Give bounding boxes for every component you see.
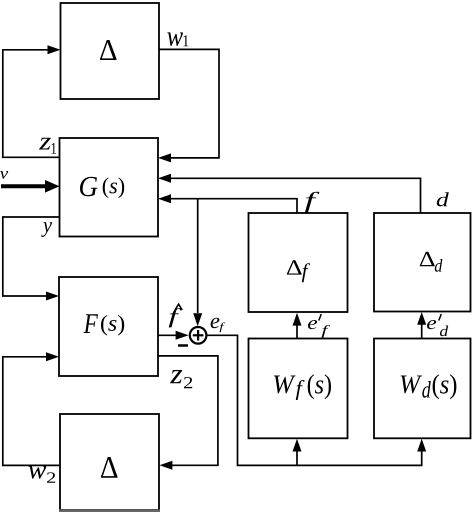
wire e'_d from W_d(s) up into Delta_d	[417, 312, 426, 339]
wire e'_f from W_f(s) up into Delta_f	[293, 313, 302, 339]
label w1	[167, 32, 188, 46]
block W_f(s) weighting filter	[249, 339, 348, 439]
label e'_f	[308, 314, 330, 338]
wire w2 from bottom Delta up into F(s)	[3, 352, 60, 465]
block G(s) plant	[60, 138, 159, 237]
wire y from G(s) down into F(s)	[3, 217, 60, 301]
wire d from Delta_d top into G(s)	[158, 174, 421, 213]
block Delta_d	[374, 213, 471, 312]
label z2	[170, 370, 192, 388]
label e'_d	[427, 314, 448, 336]
label v	[0, 171, 8, 179]
label w2	[28, 466, 55, 483]
label z1	[39, 138, 56, 154]
label e_f	[211, 318, 226, 332]
label d	[437, 192, 449, 206]
wire f from Delta_f top into G(s), branch down into summer	[158, 194, 297, 326]
label f	[305, 192, 320, 213]
block Delta_f	[249, 213, 348, 312]
wire w1 from Delta down into G(s)	[158, 49, 219, 162]
wire v bold input arrow into G(s)	[1, 180, 60, 193]
block W_d(s) weighting filter	[374, 339, 471, 439]
minus sign at summer	[178, 344, 188, 347]
label y	[41, 222, 52, 237]
wire z2 from F(s) down into bottom Delta	[158, 356, 218, 470]
block F(s) filter	[59, 277, 158, 376]
label fhat	[169, 304, 183, 327]
wire fhat from F(s) into summer (minus input)	[158, 331, 189, 340]
wire z1 feedback from G(s) up into Delta	[3, 45, 61, 157]
block Delta (bottom uncertainty block)	[59, 414, 160, 511]
wire e_f from summer down and into W_f(s) and W_d(s) bottoms	[206, 335, 426, 465]
summing junction	[190, 327, 207, 344]
block Delta (top uncertainty block)	[61, 3, 160, 99]
